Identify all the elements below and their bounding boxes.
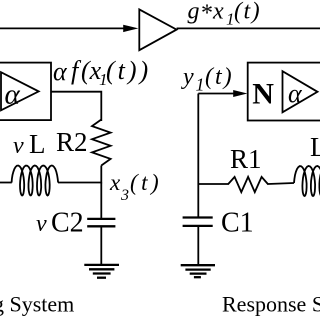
box: driving-system nonlinearity (clipped at left)	[0, 63, 51, 121]
svg-text:α: α	[5, 79, 21, 111]
svg-text:g System: g System	[0, 292, 74, 317]
box: response-system nonlinearity N	[248, 63, 320, 121]
inductor L coil (clipped at right)	[294, 166, 320, 196]
resistor R1	[228, 177, 268, 192]
wire: amplifier output g*x1(t)	[177, 27, 320, 29]
wire: node down to capacitor C1	[197, 184, 199, 217]
resistor R2	[92, 120, 111, 166]
svg-text:g: g	[188, 0, 200, 25]
op-amp (alpha amplifier) inside response box	[283, 71, 318, 112]
wire: node x3 down to capacitor C2	[100, 183, 102, 219]
svg-text:x: x	[212, 0, 224, 25]
wire: C1 to ground	[197, 226, 199, 265]
svg-text:ν: ν	[36, 211, 47, 237]
svg-text:α: α	[53, 57, 68, 86]
svg-text:N: N	[252, 77, 274, 110]
svg-text:(t): (t)	[234, 0, 261, 25]
op-amp U1 (coupling buffer)	[139, 9, 176, 50]
inductor nu-L coil	[12, 166, 59, 196]
svg-text:ν: ν	[13, 133, 24, 159]
svg-text:Response System: Response System	[222, 292, 320, 317]
svg-text:R1: R1	[230, 144, 262, 174]
svg-text:(t): (t)	[130, 170, 162, 195]
capacitor nu-C2	[87, 218, 115, 220]
svg-text:α: α	[288, 79, 303, 108]
ground (driving system)	[84, 264, 119, 266]
svg-text:C2: C2	[51, 208, 84, 239]
svg-text:L: L	[29, 129, 46, 159]
wire: box output to node above R2	[51, 92, 101, 121]
arrowhead into response box	[233, 90, 247, 97]
wire: y1 node vertical	[197, 94, 199, 185]
svg-text:C1: C1	[221, 208, 254, 239]
wire: node to R1	[198, 183, 228, 185]
svg-text:x: x	[109, 170, 121, 195]
wire: R1 to inductor L	[268, 183, 294, 184]
wire: R2 bottom to node x3	[100, 166, 102, 184]
svg-text:L: L	[310, 132, 320, 162]
svg-text:1: 1	[196, 75, 205, 95]
svg-text:*: *	[201, 1, 213, 27]
svg-text:3: 3	[120, 187, 129, 204]
svg-text:(t): (t)	[205, 64, 234, 90]
ground (response system)	[181, 264, 215, 266]
svg-text:R2: R2	[56, 127, 88, 157]
op-amp (alpha amplifier) inside driving box	[1, 72, 39, 110]
svg-text:(t)): (t))	[106, 56, 151, 85]
wire: y1 arrow into response box	[198, 93, 236, 95]
wire: input to coupling amplifier	[0, 27, 126, 29]
wire: C2 to ground	[100, 226, 102, 264]
wire: coil to node x3	[58, 182, 101, 184]
capacitor C1	[183, 216, 213, 218]
inductor nu-L (left lead)	[0, 182, 12, 184]
svg-text:y: y	[181, 64, 194, 90]
arrowhead into amplifier	[123, 25, 138, 32]
